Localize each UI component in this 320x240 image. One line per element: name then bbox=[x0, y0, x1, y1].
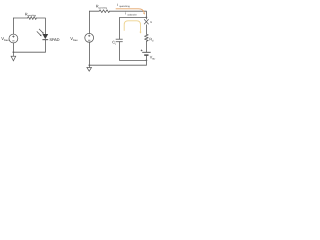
label R_quenching (left) bbox=[25, 11, 36, 17]
label i_avalanche (yellow) bbox=[125, 12, 137, 17]
svg-text:avalanche: avalanche bbox=[127, 13, 137, 16]
capacitor C_j plates bbox=[116, 39, 123, 42]
switch S (x symbol) bbox=[144, 19, 149, 24]
node dot ground corner (right) bbox=[89, 64, 91, 66]
wire switch to resistor R_d bbox=[145, 25, 147, 34]
svg-text:quenching: quenching bbox=[27, 14, 36, 17]
wire left vertical top (left circuit) bbox=[12, 18, 14, 34]
label V_bias (right) bbox=[70, 36, 78, 42]
label SPAD bbox=[49, 37, 59, 42]
svg-text:quenching: quenching bbox=[119, 5, 130, 8]
current arrow i_quenching (orange) bbox=[116, 9, 145, 15]
node dot top of switch branch bbox=[146, 17, 148, 19]
svg-text:BD: BD bbox=[152, 57, 155, 60]
wire outer bottom (right circuit) bbox=[89, 64, 146, 66]
svg-text:bias: bias bbox=[73, 39, 78, 42]
voltage source V_bias (left) bbox=[9, 34, 18, 43]
ground (right) bbox=[87, 65, 92, 71]
resistor R_quenching (left) zigzag bbox=[28, 17, 37, 20]
svg-text:s: s bbox=[150, 20, 152, 24]
svg-text:quenching: quenching bbox=[98, 6, 107, 9]
photon arrows into SPAD bbox=[37, 29, 44, 36]
wire inner top (cap branch to switch branch) bbox=[120, 17, 147, 39]
svg-text:d: d bbox=[152, 40, 154, 43]
wire capacitor bottom to inner bottom bbox=[119, 42, 121, 61]
svg-text:SPAD: SPAD bbox=[49, 37, 59, 42]
diode SPAD (triangle + cathode bar) bbox=[42, 34, 48, 40]
label R_quenching (right) bbox=[96, 3, 107, 9]
wire top left segment (left circuit) bbox=[13, 17, 27, 19]
svg-text:bias: bias bbox=[4, 39, 9, 42]
ground (left) bbox=[11, 52, 16, 61]
node dot inner-bottom junction bbox=[146, 60, 148, 62]
label i_quenching (orange) bbox=[117, 3, 130, 8]
wire inner bottom bbox=[120, 59, 147, 61]
wire top right segment + corner down to diode bbox=[36, 18, 45, 34]
resistor R_d zigzag (vertical) bbox=[145, 34, 149, 41]
wire R_d to battery bbox=[145, 41, 147, 52]
label S bbox=[150, 20, 152, 24]
wire bottom (left circuit) bbox=[13, 51, 45, 53]
current loop arrow (yellow) bbox=[124, 21, 141, 34]
voltage source V_bias (right) bbox=[85, 33, 94, 42]
label V_BD bbox=[150, 55, 156, 60]
resistor R_quenching (right) zigzag bbox=[99, 10, 109, 13]
wire top left segment (right circuit) bbox=[89, 10, 99, 12]
wire battery to bottom bbox=[145, 55, 147, 65]
wire right-circuit left vertical bbox=[88, 11, 90, 33]
wire diode cathode to bottom bbox=[44, 40, 46, 52]
battery V_BD bbox=[141, 50, 151, 56]
label R_d bbox=[149, 38, 154, 43]
label C_j bbox=[112, 40, 116, 46]
wire top right segment + corner down to junction bbox=[110, 11, 147, 17]
label V_bias (left) bbox=[1, 36, 9, 42]
wire junction to switch bbox=[145, 17, 147, 19]
svg-text:i: i bbox=[117, 3, 118, 7]
svg-text:j: j bbox=[114, 42, 116, 45]
wire source bottom stub (right circuit) bbox=[88, 42, 90, 65]
wire source bottom stub (left circuit) bbox=[12, 43, 14, 52]
node junction dot (left bottom) bbox=[13, 51, 15, 53]
